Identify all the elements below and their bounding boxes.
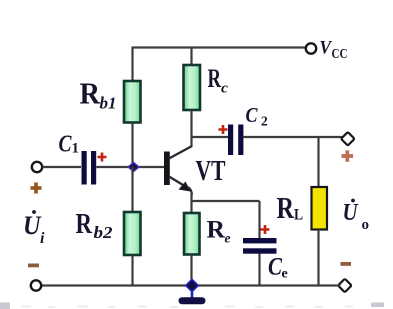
plus sign output bbox=[342, 150, 354, 161]
label Rb2 bbox=[76, 209, 114, 242]
terminal Vcc bbox=[306, 43, 316, 53]
svg-text:R: R bbox=[207, 217, 226, 244]
svg-text:R: R bbox=[208, 64, 222, 93]
svg-text:1: 1 bbox=[72, 141, 80, 157]
svg-text:U: U bbox=[23, 211, 42, 240]
svg-text:e: e bbox=[225, 231, 231, 246]
wire Rb1 top bbox=[131, 47, 133, 82]
label Vcc bbox=[320, 39, 348, 62]
label Ce bbox=[268, 254, 288, 282]
wire RL to ground rail bbox=[317, 230, 319, 286]
node base junction bbox=[128, 162, 139, 171]
capacitor C2 bbox=[228, 125, 243, 156]
svg-text:VT: VT bbox=[196, 156, 226, 187]
svg-text:R: R bbox=[76, 209, 93, 240]
wire top rail Vcc bbox=[133, 46, 307, 48]
capacitor Ce bbox=[243, 238, 277, 254]
wire Ce top bbox=[258, 201, 260, 238]
label Rc bbox=[208, 64, 229, 97]
svg-text:L: L bbox=[294, 207, 303, 224]
svg-text:R: R bbox=[80, 76, 101, 111]
svg-text:i: i bbox=[40, 230, 45, 247]
wire Rc top bbox=[190, 47, 192, 66]
node ground junction bbox=[186, 279, 199, 291]
svg-text:R: R bbox=[277, 190, 295, 225]
resistor Rb1 bbox=[124, 81, 141, 123]
terminal output top bbox=[341, 132, 355, 146]
terminal input bottom bbox=[31, 280, 41, 290]
svg-text:b1: b1 bbox=[100, 94, 117, 113]
wire emitter to Ce bbox=[191, 200, 260, 202]
capacitor C1 bbox=[82, 151, 97, 185]
wire input to C1 bbox=[43, 166, 82, 168]
wire RL branch bbox=[317, 137, 319, 187]
svg-text:C: C bbox=[246, 103, 259, 127]
wire C2 to output terminal bbox=[243, 136, 342, 138]
minus sign input bbox=[28, 264, 39, 268]
svg-text:e: e bbox=[282, 267, 288, 282]
wire ground rail bbox=[42, 284, 341, 286]
wire Rc bottom to collector bbox=[190, 110, 192, 147]
label Ui bbox=[23, 210, 45, 247]
transistor VT bbox=[164, 146, 192, 195]
resistor Re bbox=[184, 213, 200, 255]
artifact bottom dotted line bbox=[22, 306, 353, 309]
wire collector to C2 bbox=[191, 136, 229, 138]
terminal input top bbox=[32, 162, 42, 172]
wire base node to Rb2 bbox=[131, 167, 133, 212]
plus sign Ce bbox=[261, 225, 270, 234]
ground symbol bbox=[179, 290, 206, 304]
label C1 bbox=[59, 132, 80, 158]
wire base node to transistor base bbox=[134, 166, 165, 168]
wire emitter down bbox=[190, 194, 192, 213]
label RL bbox=[277, 190, 304, 225]
svg-text:U: U bbox=[343, 199, 359, 226]
resistor Rc bbox=[184, 65, 201, 110]
wire Rb1 bottom to base node bbox=[131, 123, 133, 168]
resistor RL bbox=[312, 187, 328, 230]
wire C1 to base node bbox=[96, 166, 133, 168]
wire Ce to ground rail bbox=[258, 254, 260, 286]
label Rb1 bbox=[80, 76, 117, 113]
wire Re to ground node bbox=[190, 255, 192, 286]
label C2 bbox=[246, 103, 269, 129]
svg-text:C: C bbox=[268, 254, 282, 281]
artifact bottom-left smear bbox=[0, 303, 10, 309]
plus sign C2 bbox=[219, 125, 228, 134]
svg-text:C: C bbox=[59, 132, 73, 158]
svg-text:2: 2 bbox=[261, 114, 268, 129]
svg-text:CC: CC bbox=[332, 46, 348, 61]
wire Rb2 to ground rail bbox=[131, 255, 133, 286]
terminal output bottom bbox=[338, 279, 352, 293]
svg-text:c: c bbox=[221, 81, 228, 97]
plus sign C1 bbox=[98, 153, 107, 162]
svg-text:b2: b2 bbox=[94, 223, 114, 242]
svg-text:o: o bbox=[362, 217, 370, 233]
label Re bbox=[207, 217, 231, 246]
plus sign input bbox=[31, 183, 42, 194]
artifact bottom-right mark bbox=[371, 303, 384, 308]
resistor Rb2 bbox=[124, 212, 141, 255]
label Uo bbox=[343, 199, 370, 233]
minus sign output bbox=[341, 262, 352, 266]
